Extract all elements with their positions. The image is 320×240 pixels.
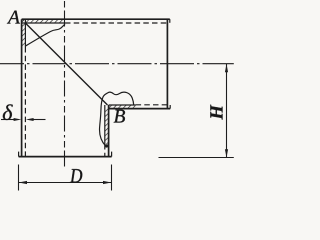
dimension H bottom extension line (base level) [159,157,234,159]
label B [114,110,125,123]
hatch weld section A top band [22,19,65,23]
vertical centerline of vertical duct [64,1,66,170]
weld tack dot at B lower [105,144,108,147]
wire right inner wall solid part (weld zone B) [104,105,106,144]
wire left inner wall dashed [24,47,26,157]
label H [210,105,222,120]
dimension delta leader left [1,119,14,121]
wire bottom end flange stub right [111,152,113,157]
wire top inner wall solid part (weld zone A) [22,22,65,24]
wire right end flange stub top [169,19,171,23]
dimension D line [19,182,112,184]
wire top outer edge of horizontal duct [22,18,170,20]
dimension D extension line left [18,165,20,191]
paper background [0,0,237,197]
arrow H bottom [225,149,228,157]
label D [70,169,82,182]
wire top inner wall dashed [65,22,167,24]
wire bottom end line of vertical duct [19,156,112,158]
wire right outer edge of vertical duct [108,105,110,157]
wire bottom inner wall solid part (weld zone B) [109,104,136,106]
arrow H top [225,64,228,72]
wire miter seam diagonal A to B [26,23,108,105]
wire right end flange stub bottom [169,105,171,109]
arrow delta left-pointing [26,118,34,121]
horizontal centerline of horizontal duct [0,63,234,65]
wire right inner wall dashed [104,144,106,157]
wire left outer edge of vertical duct [21,19,23,156]
arrow delta right-pointing [14,118,22,121]
dimension delta leader right [34,119,46,121]
label delta [3,104,13,120]
wire left inner wall solid part (weld zone A) [24,19,26,47]
hatch weld section B vertical band [105,109,109,144]
hatch weld section B horizontal band [109,105,136,109]
dimension D extension line right [111,165,113,191]
weld bead contour at A [25,24,65,46]
hatch weld section A left band [22,19,26,47]
dimension H line [226,64,228,158]
arrow D right [103,181,111,184]
wire bottom end flange stub left [18,152,20,157]
label A [7,11,20,24]
weld bead contour at B [100,92,134,146]
wire right end line of horizontal duct [166,19,168,108]
arrow D left [19,181,27,184]
wire bottom outer edge of horizontal duct [109,108,171,110]
wire bottom inner wall dashed [136,104,168,106]
